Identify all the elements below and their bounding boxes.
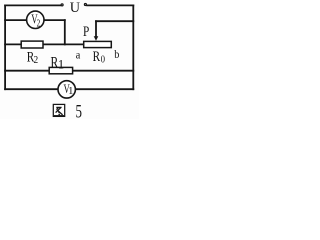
wire mid row center bbox=[43, 43, 84, 45]
svg-text:b: b bbox=[114, 49, 119, 62]
voltmeter V2 bbox=[27, 11, 44, 28]
svg-text:1: 1 bbox=[68, 86, 73, 97]
svg-text:2: 2 bbox=[37, 17, 41, 28]
svg-text:2: 2 bbox=[34, 54, 39, 66]
wire top right bbox=[87, 4, 133, 6]
wire R1 row left bbox=[5, 70, 49, 72]
svg-text:U: U bbox=[70, 0, 81, 16]
wire bottom right bbox=[75, 88, 133, 90]
resistor R1 bbox=[49, 67, 72, 73]
wire top left bbox=[5, 4, 60, 6]
wire V2 branch vertical bbox=[64, 20, 66, 44]
wire R1 row right bbox=[73, 70, 134, 72]
svg-text:5: 5 bbox=[76, 102, 82, 119]
wire bottom left bbox=[5, 88, 58, 90]
svg-text:1: 1 bbox=[58, 57, 64, 71]
wire V2 row right bbox=[44, 19, 65, 21]
svg-text:a: a bbox=[76, 49, 81, 62]
resistor R2 bbox=[21, 41, 43, 48]
wire right rail bbox=[132, 5, 134, 89]
svg-text:0: 0 bbox=[101, 55, 106, 66]
voltmeter V1 bbox=[58, 81, 75, 98]
wire V2 row left bbox=[5, 19, 27, 21]
label figure caption 图 bbox=[53, 104, 64, 116]
svg-text:R: R bbox=[93, 47, 101, 64]
wire left rail bbox=[4, 5, 6, 89]
wiper arrowhead bbox=[94, 36, 99, 41]
wire wiper row bbox=[96, 20, 133, 22]
wire wiper vertical bbox=[95, 21, 97, 36]
terminal U right bbox=[84, 4, 86, 6]
svg-text:P: P bbox=[83, 22, 89, 39]
resistor R0 bbox=[84, 41, 112, 47]
wire mid row left bbox=[5, 43, 21, 45]
terminal U left bbox=[61, 4, 63, 6]
